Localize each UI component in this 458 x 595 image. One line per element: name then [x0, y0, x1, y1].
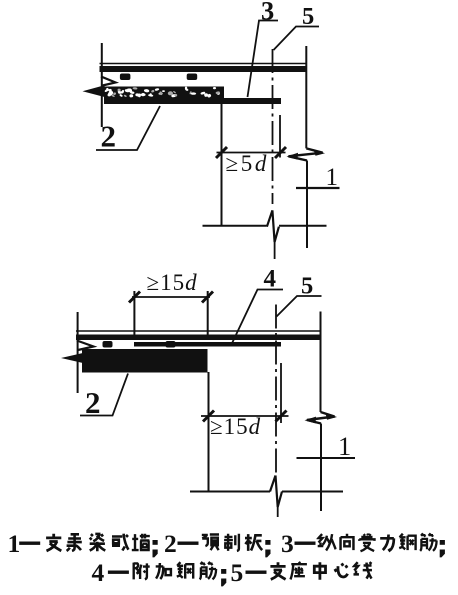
svg-text:≥15d: ≥15d [147, 270, 198, 295]
svg-text:4: 4 [92, 558, 105, 587]
svg-text:3: 3 [281, 529, 294, 558]
svg-text:2: 2 [85, 385, 101, 420]
svg-text:2: 2 [101, 119, 117, 154]
svg-text:1: 1 [8, 529, 21, 558]
svg-text:2: 2 [164, 529, 177, 558]
svg-text:1: 1 [338, 431, 351, 461]
svg-text:≥15d: ≥15d [210, 414, 261, 439]
svg-text:3: 3 [261, 0, 274, 26]
svg-text:1: 1 [326, 164, 339, 191]
svg-text:4: 4 [264, 266, 277, 293]
svg-text:5: 5 [231, 558, 244, 587]
svg-text:≥5d: ≥5d [226, 151, 269, 176]
svg-text:5: 5 [301, 273, 313, 300]
svg-text:5: 5 [302, 3, 314, 30]
